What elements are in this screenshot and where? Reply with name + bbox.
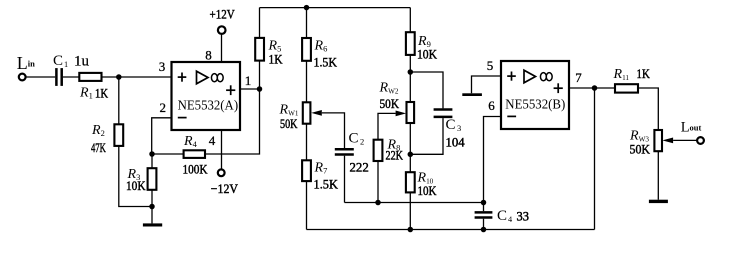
svg-text:1K: 1K [637,67,650,81]
wire node to ground [151,207,153,224]
resistor R7 [302,160,311,181]
wiper arrow RW3 [662,138,673,144]
resistor R8 [374,140,383,161]
capacitor C3 [434,110,453,117]
svg-text:8: 8 [205,48,212,63]
op-amp U1B infinity [540,73,552,81]
wire R5 bottom to pin 1 node [259,61,261,89]
svg-text:2: 2 [160,100,167,115]
resistor R4 [184,150,205,158]
wire pin 7 to R11 [569,87,615,89]
node RW2 bottom [408,152,414,158]
wire C2 bottom down [344,156,346,203]
svg-text:104: 104 [446,135,465,149]
wire pin 5 to ground [472,76,502,93]
svg-text:1.5K: 1.5K [314,177,339,191]
wire bottom rail [307,229,595,231]
wire pin 6 down [484,117,502,203]
resistor R11 [615,84,638,92]
wire RW2 bottom [409,123,411,154]
op-amp U1B triangle [524,70,536,83]
node C3 top [408,69,414,75]
op-amp U1A noninverting plus [178,73,187,82]
wire R10 bottom to rail [409,192,411,229]
svg-text:1.5K: 1.5K [314,56,338,70]
svg-text:10K: 10K [417,47,437,61]
wire R4 to pin 1 node [205,89,260,154]
resistor R6 [302,38,311,61]
svg-text:1: 1 [245,73,252,88]
op-amp U1B output plus [554,83,563,93]
wiper arrow RW2 [396,111,407,117]
svg-text:7: 7 [575,70,582,85]
svg-text:100K: 100K [183,162,208,176]
wire top rail [260,7,411,9]
node mid line pin 6 [481,200,487,206]
wire rail to R9 [409,8,411,33]
svg-text:47K: 47K [91,141,106,155]
wire node to R10 [409,154,411,172]
svg-text:1u: 1u [74,53,89,69]
svg-text:6: 6 [488,98,495,113]
wire R3 bottom [151,190,153,207]
resistor R3 [148,168,157,190]
op-amp U1B inverting minus [507,115,516,117]
resistor R5 [255,38,264,61]
wire RW1 wiper to C2 [322,113,345,148]
potentiometer RW3 [654,130,662,151]
wiper arrow RW1 [311,110,322,116]
resistor R1 [79,73,101,81]
op-amp U1A inverting minus [178,117,187,119]
svg-text:50K: 50K [280,117,298,131]
op-amp U1B box [501,61,569,129]
svg-text:22K: 22K [386,149,404,163]
wire node to R4 [152,153,184,155]
wire R11 to RW3 [638,88,658,130]
resistor R2 [114,124,123,146]
svg-text:50K: 50K [630,142,651,156]
svg-text:1K: 1K [269,52,283,66]
op-amp U1A output plus [226,85,235,95]
op-amp U1A triangle [197,71,209,84]
potentiometer RW1 [303,102,311,123]
wire R9 to RW2 [409,55,411,102]
wire wiper to Lout [673,139,697,141]
wire C4 bottom to rail [483,219,485,230]
terminal +12V [218,26,226,34]
ground main [143,223,162,226]
wire R1 to pin 3 [102,76,172,78]
wire C3 branch top [410,72,443,108]
svg-text:NE5532(A): NE5532(A) [178,97,239,112]
wire pin 4 to -12V [221,130,223,169]
terminal -12V [218,169,225,176]
wire RW1 to R7 [306,124,308,161]
wire R8 bottom [377,161,379,203]
wire R7 bottom to bottom rail [306,181,308,229]
wire Lin to C1 [26,76,55,78]
svg-text:5: 5 [487,58,494,73]
node input junction [116,74,122,80]
wire RW2 wiper to R8 [378,113,396,139]
node pin 7 [592,85,598,91]
svg-text:+12V: +12V [210,6,236,21]
svg-text:−12V: −12V [211,181,239,196]
wire C1 to R1 [63,76,79,78]
wire feedback down [594,88,596,230]
op-amp U1A box [172,62,241,130]
svg-text:3: 3 [159,59,166,74]
svg-text:1K: 1K [95,86,108,100]
node R10 bottom [408,227,414,233]
node pin 1 [257,86,263,92]
node R3 bottom [149,204,155,210]
wire pin 8 to +12V [221,34,223,62]
svg-text:50K: 50K [380,97,400,111]
potentiometer RW2 [407,102,415,123]
wire mid line C2 to C4 [345,202,484,204]
capacitor C2 [335,149,354,154]
node pin 2 feedback [149,151,155,157]
wire pin 2 left and down [152,118,172,154]
capacitor C1 [56,68,61,86]
terminal Lout [697,137,704,144]
svg-text:10K: 10K [418,184,437,198]
svg-text:4: 4 [209,133,216,148]
node C4 bottom [481,227,487,233]
ground pin 5 [462,93,482,96]
resistor R9 [406,32,415,55]
wire RW3 to ground [657,151,659,200]
wire node to C4 [483,203,485,212]
svg-text:10K: 10K [126,179,146,193]
terminal Lin [19,74,26,81]
wire R2 bottom to ground node [119,146,152,207]
wire rail to R6 [306,8,308,38]
op-amp U1A infinity [211,74,223,82]
node rail R6 [304,5,310,11]
svg-text:222: 222 [350,160,369,174]
wire R6 to RW1 [306,61,308,103]
capacitor C4 [475,212,493,217]
wire pin 1 [240,88,260,90]
wire input node down to R2 [118,77,120,124]
node R8 bottom [375,200,381,206]
op-amp U1B noninverting plus [507,72,516,81]
resistor R10 [406,172,415,192]
svg-text:NE5532(B): NE5532(B) [505,96,565,111]
ground RW3 [649,200,668,203]
wire node to R3 [151,154,153,168]
svg-text:33: 33 [517,209,530,223]
wire R5 top to rail [259,8,261,38]
wire C3 bottom return [410,118,443,154]
